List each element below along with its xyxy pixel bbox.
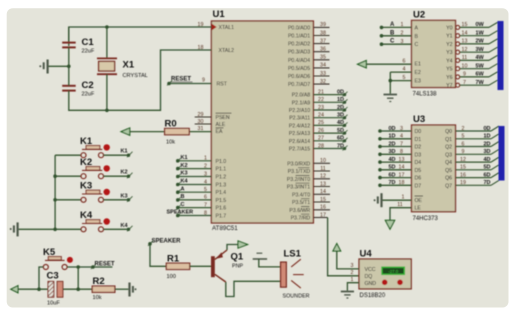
svg-text:B: B	[181, 194, 185, 200]
U2 output Y4 pin 11 net 4W	[456, 55, 498, 62]
svg-text:2: 2	[204, 163, 207, 169]
svg-text:R1: R1	[167, 254, 180, 265]
wire net 5D to U3 pin 14	[378, 165, 411, 172]
U1 pin 3 stub P1.2 net K3	[176, 171, 211, 179]
svg-text:P0.7/AD7: P0.7/AD7	[288, 82, 310, 88]
svg-text:K2: K2	[121, 170, 128, 176]
svg-text:U4: U4	[360, 248, 373, 259]
svg-text:37: 37	[320, 38, 326, 44]
U2 output Y3 pin 12 net 3W	[456, 47, 498, 54]
U1 pin 9 number	[202, 77, 205, 83]
ic U2 74LS138 body	[412, 10, 456, 98]
svg-text:2D: 2D	[337, 105, 344, 111]
svg-text:PNP: PNP	[232, 263, 243, 269]
wire net 6D to U3 pin 17	[378, 172, 411, 179]
wire C3 to R2	[63, 288, 92, 290]
svg-text:P2.4/A12: P2.4/A12	[289, 123, 310, 129]
svg-text:14: 14	[462, 31, 468, 37]
wire P3.7 to U4 DQ	[328, 218, 359, 276]
svg-text:K3: K3	[80, 181, 92, 192]
wire net A to U2 pin 1	[380, 22, 412, 29]
svg-text:R2: R2	[93, 276, 105, 287]
svg-text:P2.7/A15: P2.7/A15	[289, 147, 310, 153]
U1 pin 1 stub P1.0 net K1	[176, 155, 211, 163]
push button K2	[55, 157, 110, 179]
svg-text:7: 7	[400, 141, 403, 147]
svg-text:K4: K4	[181, 179, 189, 185]
svg-text:23: 23	[318, 105, 324, 111]
svg-text:17: 17	[399, 172, 405, 178]
svg-text:D1: D1	[415, 137, 422, 143]
svg-text:OE: OE	[415, 198, 423, 204]
U1 pin 8 stub P1.7 net SPEAKER	[167, 210, 212, 218]
svg-text:P3.2/INT0: P3.2/INT0	[287, 177, 310, 183]
U1 pin 32 stub P0.7	[313, 79, 329, 85]
power terminal left of keys	[10, 222, 18, 236]
svg-text:Y3: Y3	[446, 50, 452, 56]
svg-text:4: 4	[403, 66, 406, 72]
svg-text:P1.7: P1.7	[216, 214, 227, 220]
svg-text:14: 14	[320, 189, 326, 195]
svg-text:Q1: Q1	[445, 137, 452, 143]
svg-text:D4: D4	[415, 160, 422, 166]
svg-text:P0.0/AD0: P0.0/AD0	[288, 25, 310, 31]
svg-text:Y2: Y2	[446, 42, 452, 48]
svg-text:13: 13	[320, 181, 326, 187]
svg-text:RST: RST	[217, 82, 228, 88]
svg-text:EA: EA	[216, 129, 223, 135]
svg-text:P2.2/A10: P2.2/A10	[289, 108, 310, 114]
svg-text:16: 16	[460, 172, 466, 178]
svg-text:P0.2/AD2: P0.2/AD2	[288, 42, 310, 48]
U3 output Q6 pin 16 net 6D	[456, 172, 500, 178]
svg-text:K4: K4	[80, 210, 93, 221]
U1 pin 30 stub ALE	[195, 123, 212, 125]
wire net 3D to U3 pin 8	[378, 149, 411, 156]
svg-text:U3: U3	[413, 114, 425, 125]
U1 pin 5 stub P1.4 net A	[176, 186, 211, 194]
junction keys rail bottom	[53, 228, 57, 232]
svg-text:B: B	[390, 30, 395, 36]
svg-text:1D: 1D	[337, 97, 344, 103]
U1 pin 31 number	[198, 126, 204, 132]
resistor R1	[166, 254, 189, 280]
svg-text:DS18B20: DS18B20	[360, 293, 386, 299]
capacitor C1	[62, 27, 95, 55]
U1 pin 29 number	[198, 112, 204, 118]
U1 pin 36 stub P0.3	[313, 47, 329, 53]
svg-text:2: 2	[351, 270, 354, 276]
svg-text:25: 25	[318, 120, 324, 126]
ic U4 DS18B20 body	[359, 248, 411, 299]
U1 pin 19 stub	[195, 26, 212, 28]
svg-text:13: 13	[399, 157, 405, 163]
svg-text:6D: 6D	[484, 172, 491, 178]
power terminal left of C1 C2	[39, 60, 47, 74]
U1 pin 23 stub P2.2 net 2D	[313, 105, 347, 112]
U1 pin 12 stub P3.2	[313, 174, 330, 180]
svg-text:RESET: RESET	[95, 261, 115, 267]
U1 pin 11 stub P3.1	[313, 166, 330, 172]
svg-text:A: A	[390, 22, 395, 28]
svg-text:28: 28	[318, 143, 324, 149]
svg-text:P3.3/INT1: P3.3/INT1	[287, 185, 310, 191]
wire K3 to net label	[104, 193, 133, 202]
U1 pin 33 stub P0.6	[313, 71, 329, 77]
U1 pin 24 stub P2.3 net 3D	[313, 113, 347, 120]
svg-text:K1: K1	[121, 149, 128, 155]
svg-text:D7: D7	[415, 183, 422, 189]
svg-text:A: A	[415, 25, 419, 31]
svg-text:5: 5	[204, 187, 207, 193]
U1 pin 37 stub P0.2	[313, 38, 329, 44]
wire OE pin 1	[383, 194, 412, 200]
svg-text:21: 21	[318, 89, 324, 95]
svg-text:P0.1/AD1: P0.1/AD1	[288, 34, 310, 40]
svg-text:3W: 3W	[476, 47, 485, 53]
svg-text:PSEN: PSEN	[216, 115, 230, 121]
svg-text:K2: K2	[80, 157, 92, 168]
svg-text:P2.6/A14: P2.6/A14	[289, 139, 310, 145]
svg-text:P0.6/AD6: P0.6/AD6	[288, 74, 310, 80]
U1 pin 21 stub P2.0 net 0D	[313, 89, 347, 96]
svg-text:24: 24	[318, 113, 324, 119]
U3 pin names	[415, 129, 453, 212]
svg-text:Y1: Y1	[446, 34, 452, 40]
svg-text:U1: U1	[213, 9, 226, 20]
bus bar right of U2	[498, 21, 504, 90]
svg-text:SOUNDER: SOUNDER	[283, 294, 310, 300]
svg-text:4D: 4D	[337, 120, 344, 126]
svg-text:AT89C51: AT89C51	[212, 225, 238, 232]
wire Q1 collector to LS1	[226, 281, 281, 296]
svg-text:3: 3	[204, 171, 207, 177]
U3 output Q5 pin 15 net 5D	[456, 165, 500, 171]
svg-text:29: 29	[198, 112, 204, 118]
wire net C to U2 pin 3	[380, 39, 412, 46]
svg-text:6: 6	[462, 141, 465, 147]
svg-text:3: 3	[351, 263, 354, 269]
wire XTAL1 top rail	[69, 27, 212, 46]
svg-text:3D: 3D	[337, 113, 344, 119]
wire K2 to net label	[104, 170, 133, 179]
svg-text:17: 17	[320, 212, 326, 218]
wire K5 right to RESET	[67, 266, 112, 268]
svg-text:Q3: Q3	[445, 152, 452, 158]
svg-text:12: 12	[460, 157, 466, 163]
svg-text:K3: K3	[181, 171, 188, 177]
svg-text:X1: X1	[123, 60, 135, 71]
svg-text:1D: 1D	[389, 134, 396, 140]
wire K1 to net label	[104, 149, 133, 158]
svg-text:CRYSTAL: CRYSTAL	[123, 73, 148, 79]
svg-text:4D: 4D	[484, 157, 491, 163]
svg-text:6: 6	[204, 195, 207, 201]
U1 left pin names	[216, 25, 235, 219]
svg-text:22: 22	[318, 97, 324, 103]
svg-text:P2.3/A11: P2.3/A11	[289, 116, 310, 122]
net label SPEAKER node	[148, 238, 181, 246]
svg-text:E1: E1	[415, 62, 421, 68]
svg-text:P3.5/T1: P3.5/T1	[292, 200, 310, 206]
U1 pin 15 stub P3.5	[313, 197, 330, 203]
ic U3 74HC373 body	[412, 114, 456, 222]
svg-text:Q0: Q0	[445, 129, 452, 135]
U1 pin 10 stub P3.0	[313, 158, 330, 164]
svg-text:P1.5: P1.5	[216, 198, 227, 204]
wire SPEAKER to R1	[150, 244, 166, 266]
U1 pin 4 stub P1.3 net K4	[176, 179, 211, 187]
U1 pin 26 stub P2.5 net 5D	[313, 128, 347, 135]
svg-text:P1.3: P1.3	[216, 183, 227, 189]
svg-text:26: 26	[318, 128, 324, 134]
svg-text:74LS138: 74LS138	[413, 92, 438, 98]
svg-text:2D: 2D	[484, 141, 491, 147]
ground arrow below U3 LE	[385, 220, 394, 229]
svg-text:Q6: Q6	[445, 176, 452, 182]
svg-text:9: 9	[202, 77, 205, 83]
svg-text:E3: E3	[415, 79, 421, 85]
svg-text:15: 15	[462, 22, 468, 28]
svg-text:6D: 6D	[389, 172, 396, 178]
svg-text:4: 4	[400, 134, 403, 140]
svg-text:P0.5/AD5: P0.5/AD5	[288, 66, 310, 72]
svg-text:P3.7/RD: P3.7/RD	[291, 216, 311, 222]
svg-text:2: 2	[462, 126, 465, 132]
svg-text:C2: C2	[82, 80, 94, 91]
svg-text:VCC: VCC	[365, 267, 376, 273]
junction keys rail K3	[53, 198, 57, 202]
svg-text:P3.6/WR: P3.6/WR	[289, 208, 310, 214]
svg-text:U2: U2	[413, 10, 425, 21]
input terminal arrow at R0	[121, 128, 130, 135]
push button K1	[55, 136, 110, 158]
U1 pin 19 number	[198, 22, 204, 28]
svg-text:5W: 5W	[476, 64, 485, 70]
svg-text:K2: K2	[181, 163, 188, 169]
svg-text:7: 7	[204, 202, 207, 208]
svg-text:C3: C3	[47, 271, 59, 282]
U1 pin 27 stub P2.6 net 6D	[313, 136, 347, 143]
svg-text:12: 12	[462, 47, 468, 53]
input terminal arrow at U2 E1	[358, 61, 367, 68]
svg-text:5D: 5D	[337, 128, 344, 134]
svg-text:8: 8	[204, 210, 207, 216]
svg-text:7D: 7D	[389, 180, 396, 186]
U2 pin names	[415, 25, 453, 89]
svg-text:10: 10	[462, 64, 468, 70]
svg-text:2W: 2W	[476, 39, 485, 45]
svg-text:Y6: Y6	[446, 75, 452, 81]
junction crystal top	[105, 25, 109, 29]
U1 pin 6 stub P1.5 net B	[176, 194, 211, 202]
svg-text:22uF: 22uF	[82, 49, 95, 55]
U1 pin 17 stub P3.7	[313, 212, 327, 218]
capacitor C2	[62, 80, 95, 98]
svg-text:K3: K3	[121, 193, 128, 199]
svg-text:6D: 6D	[337, 136, 344, 142]
svg-text:39: 39	[320, 22, 326, 28]
svg-text:2D: 2D	[389, 141, 396, 147]
svg-text:Q7: Q7	[445, 183, 452, 189]
svg-text:XTAL1: XTAL1	[219, 25, 235, 31]
U2 output Y0 pin 15 net 0W	[456, 22, 498, 29]
junction keys rail K2	[53, 174, 57, 178]
power arrow at Q1 emitter	[238, 241, 248, 248]
ground symbol below U2	[384, 95, 398, 102]
U1 pin 25 stub P2.4 net 4D	[313, 120, 347, 127]
svg-text:35: 35	[320, 55, 326, 61]
svg-text:15: 15	[460, 165, 466, 171]
svg-text:6: 6	[403, 58, 406, 64]
wire ground to LS1 top terminal	[259, 259, 281, 267]
svg-text:3: 3	[401, 39, 404, 45]
svg-text:32: 32	[320, 79, 326, 85]
svg-text:19: 19	[460, 180, 466, 186]
svg-text:GND: GND	[365, 281, 377, 287]
svg-text:Q4: Q4	[445, 160, 452, 166]
svg-text:P0.4/AD4: P0.4/AD4	[288, 58, 310, 64]
svg-text:7D: 7D	[484, 180, 491, 186]
U1 pin 35 stub P0.4	[313, 55, 329, 61]
svg-text:3D: 3D	[389, 149, 396, 155]
wire net 0D to U3 pin 3	[378, 126, 411, 133]
wire LE pin 11 to ground arrow	[390, 202, 412, 225]
svg-text:XTAL2: XTAL2	[219, 48, 235, 54]
svg-text:10: 10	[320, 158, 326, 164]
transistor Q1 PNP	[211, 250, 244, 282]
U1 pin 7 stub P1.6 net C	[176, 202, 211, 210]
U3 output Q3 pin 9 net 3D	[456, 149, 500, 155]
svg-text:SPEAKER: SPEAKER	[152, 238, 182, 244]
svg-text:0D: 0D	[484, 126, 491, 132]
U3 output Q0 pin 2 net 0D	[456, 126, 500, 132]
svg-text:C: C	[390, 39, 395, 45]
wire net 2D to U3 pin 7	[378, 141, 411, 148]
U1 pin 39 stub P0.0	[313, 22, 329, 28]
wire R2 to power terminal	[115, 288, 128, 290]
svg-text:3D: 3D	[484, 149, 491, 155]
svg-text:7D: 7D	[337, 143, 344, 149]
U4 display readout	[382, 267, 404, 274]
svg-text:Q2: Q2	[445, 145, 452, 151]
svg-text:P0.3/AD3: P0.3/AD3	[288, 50, 310, 56]
wire midpoint to power bar	[49, 65, 69, 67]
svg-text:RESET: RESET	[171, 77, 191, 83]
wire U2 E2 pin 4	[390, 66, 411, 72]
svg-text:D5: D5	[415, 168, 422, 174]
svg-text:K1: K1	[80, 136, 93, 147]
svg-text:1D: 1D	[484, 134, 491, 140]
svg-text:12: 12	[320, 174, 326, 180]
capacitor C3 polarized	[47, 271, 63, 307]
svg-text:ALE: ALE	[216, 122, 226, 128]
svg-text:DQ: DQ	[365, 274, 373, 280]
svg-text:5D: 5D	[389, 165, 396, 171]
U3 output Q7 pin 19 net 7D	[456, 180, 500, 186]
svg-text:P3.4/T0: P3.4/T0	[292, 192, 310, 198]
svg-text:Y7: Y7	[446, 83, 452, 89]
svg-text:K4: K4	[121, 223, 129, 229]
U1 pin 22 stub P2.1 net 1D	[313, 97, 347, 104]
U1 right pin names	[287, 25, 311, 221]
svg-text:P2.0/A8: P2.0/A8	[292, 93, 311, 99]
svg-text:-27.0: -27.0	[388, 269, 398, 274]
svg-text:1: 1	[204, 156, 207, 162]
power terminal right of R2	[130, 283, 137, 297]
svg-text:7: 7	[463, 80, 466, 86]
wire U4 GND pin 1 to ground	[347, 277, 359, 291]
svg-text:P1.4: P1.4	[216, 190, 227, 196]
wire K4 to net label	[104, 223, 133, 232]
svg-text:B: B	[415, 34, 419, 40]
ground terminal above LS1	[253, 253, 267, 259]
svg-text:Q5: Q5	[445, 168, 452, 174]
svg-text:P1.0: P1.0	[216, 159, 227, 165]
svg-text:3: 3	[400, 126, 403, 132]
svg-text:D3: D3	[415, 152, 422, 158]
ground arrow left of C3	[11, 286, 18, 293]
svg-text:P2.1/A9: P2.1/A9	[292, 100, 311, 106]
svg-text:22uF: 22uF	[82, 92, 95, 98]
svg-text:C: C	[415, 42, 419, 48]
wire C1 to C2	[68, 47, 70, 85]
U2 output Y7 pin 7 net 7W	[456, 80, 498, 87]
svg-text:P1.6: P1.6	[216, 206, 227, 212]
svg-text:4D: 4D	[389, 157, 396, 163]
U1 pin 18 number	[198, 45, 204, 51]
svg-text:P1.2: P1.2	[216, 175, 227, 181]
push button K5	[43, 247, 73, 270]
U3 output Q4 pin 12 net 4D	[456, 157, 500, 163]
svg-text:Y5: Y5	[446, 67, 452, 73]
svg-text:R0: R0	[165, 119, 177, 130]
svg-text:P3.0/RXD: P3.0/RXD	[287, 161, 310, 167]
svg-text:5: 5	[462, 134, 465, 140]
svg-text:0D: 0D	[337, 89, 344, 95]
U4 indicator dot left	[382, 280, 388, 286]
wire bottom rail to XTAL2	[69, 50, 212, 110]
wire E1 terminal to U2 pin 6	[366, 58, 411, 64]
junction crystal bottom	[105, 109, 109, 113]
U4 DQ pin 2 number	[351, 270, 354, 276]
junction R2 left	[76, 287, 80, 291]
svg-text:2: 2	[401, 31, 404, 37]
wire R1 to Q1 base	[190, 265, 211, 267]
svg-text:8: 8	[400, 149, 403, 155]
wire keys rail to power terminal	[19, 228, 81, 230]
svg-text:0D: 0D	[389, 126, 396, 132]
svg-text:5: 5	[403, 75, 406, 81]
svg-text:LS1: LS1	[284, 249, 302, 260]
svg-text:15: 15	[320, 197, 326, 203]
crystal X1	[97, 27, 148, 110]
svg-text:4W: 4W	[476, 55, 485, 61]
svg-text:11: 11	[320, 166, 326, 172]
ground symbol below U4	[341, 292, 354, 299]
net label RESET at K5	[91, 261, 115, 269]
U3 output Q1 pin 5 net 1D	[456, 134, 500, 140]
svg-text:16: 16	[320, 205, 326, 211]
svg-text:K5: K5	[43, 247, 56, 258]
svg-text:D0: D0	[415, 129, 422, 135]
keys left rail	[54, 155, 56, 229]
svg-text:K1: K1	[181, 155, 188, 161]
U2 output Y5 pin 10 net 5W	[456, 64, 498, 71]
U3 output Q2 pin 6 net 2D	[456, 141, 500, 147]
junction C1-C2 midpoint	[67, 65, 71, 69]
junction K5 RESET riser	[76, 265, 80, 269]
